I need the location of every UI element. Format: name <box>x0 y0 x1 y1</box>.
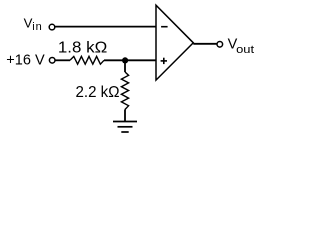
wire resistor R2 to ground <box>124 110 126 122</box>
op-amp non-inverting input marker + <box>161 58 167 64</box>
ground <box>113 122 137 133</box>
wire resistor R1 to op-amp non-inverting input <box>104 59 156 61</box>
wire junction down to resistor R2 <box>124 60 126 72</box>
junction node A <box>122 57 128 63</box>
svg-text:out: out <box>236 44 254 56</box>
wire Vin to op-amp inverting input <box>55 26 156 28</box>
svg-text:+16 V: +16 V <box>6 52 44 69</box>
terminal Vout <box>217 42 223 48</box>
wire op-amp output to Vout terminal <box>193 43 216 45</box>
terminal +16V <box>49 58 55 64</box>
svg-text:in: in <box>32 21 43 33</box>
resistor R1 1.8 kOhm zigzag <box>70 56 104 64</box>
svg-text:1.8 kΩ: 1.8 kΩ <box>58 40 107 57</box>
op-amp U1 triangle <box>156 5 193 80</box>
wire +16V terminal to resistor R1 <box>55 59 70 61</box>
op-amp inverting input marker - <box>161 26 168 28</box>
svg-text:2.2 kΩ: 2.2 kΩ <box>76 84 120 101</box>
terminal Vin <box>49 24 55 30</box>
resistor R2 2.2 kOhm vertical zigzag <box>121 72 128 110</box>
